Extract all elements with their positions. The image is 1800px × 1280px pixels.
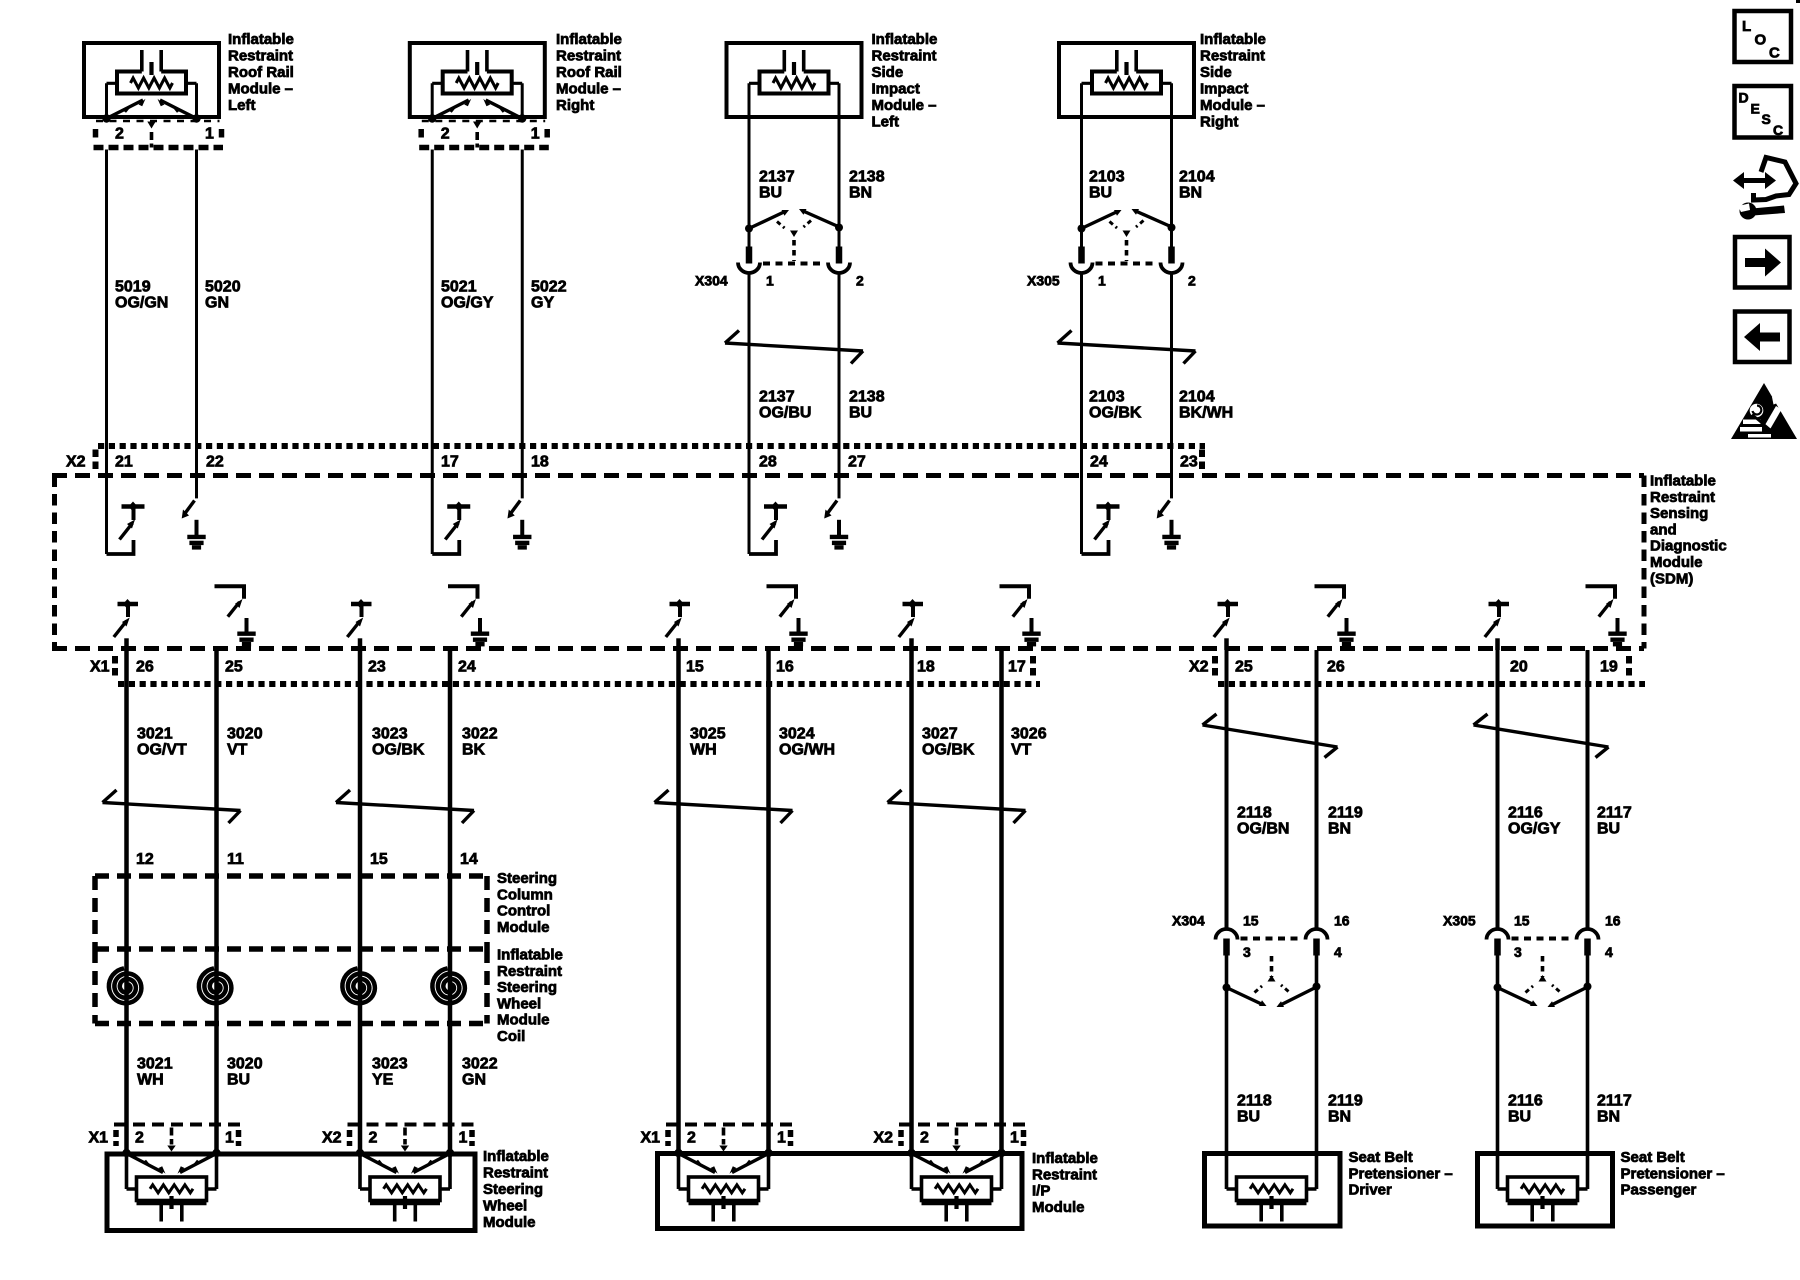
wire label 2117 BN xyxy=(1597,1093,1632,1126)
svg-text:24: 24 xyxy=(458,659,476,676)
shorting bars squib 2 xyxy=(907,1149,1005,1174)
svg-text:GY: GY xyxy=(531,295,554,312)
svg-text:BU: BU xyxy=(849,405,872,422)
clockspring coil (spiral) xyxy=(109,968,141,1003)
svg-text:(SDM): (SDM) xyxy=(1650,570,1693,587)
wire 2138 BU (SDM side) xyxy=(838,275,841,478)
svg-text:BN: BN xyxy=(1328,1109,1351,1126)
harness continuation arrow xyxy=(336,790,474,823)
svg-text:Restraint: Restraint xyxy=(1032,1166,1097,1183)
svg-text:O: O xyxy=(1755,32,1767,49)
svg-text:Pretensioner –: Pretensioner – xyxy=(1349,1165,1453,1182)
wire label 3024 OG/WH xyxy=(779,726,835,759)
svg-text:15: 15 xyxy=(1243,913,1259,929)
icon: double arrow with wrench xyxy=(1733,158,1796,220)
wire label 2119 BN xyxy=(1328,1093,1363,1126)
wire label 3022 BK xyxy=(462,726,498,759)
harness continuation arrow xyxy=(1203,714,1338,758)
svg-text:26: 26 xyxy=(136,659,154,676)
wire 5022 GY xyxy=(521,150,524,478)
shorting bars squib 1 xyxy=(674,1149,772,1174)
module box: Inflatable Restraint I/P Module xyxy=(658,1154,1023,1229)
wire 2117 BU (SDM side) xyxy=(1586,650,1590,929)
connector strip X2 of SDM (pins 25 26 20 19) xyxy=(1189,656,1645,684)
svg-text:3025: 3025 xyxy=(690,726,726,743)
wire label 3026 VT xyxy=(1011,726,1047,759)
squib of Pretensioner Passenger xyxy=(1498,1153,1588,1222)
svg-text:Restraint: Restraint xyxy=(228,48,293,65)
SDM deployment-loop driver, pin 21 xyxy=(107,477,145,554)
wire label 2104 BK/WH xyxy=(1179,389,1233,422)
wire label 3020 BU xyxy=(227,1056,263,1089)
wire 3024 OG/WH xyxy=(766,650,771,1153)
svg-text:3026: 3026 xyxy=(1011,726,1047,743)
module box: Inflatable Restraint Side Impact Module - Left xyxy=(727,43,862,117)
svg-text:3022: 3022 xyxy=(462,726,498,743)
svg-text:5022: 5022 xyxy=(531,279,567,296)
wire label 2117 BU xyxy=(1597,805,1632,838)
svg-text:1: 1 xyxy=(777,1130,786,1147)
connector strip X2 of SDM (pins 21 22 17 18 28 27 24 23) xyxy=(66,446,1205,471)
svg-text:Seat Belt: Seat Belt xyxy=(1349,1149,1413,1166)
svg-text:3020: 3020 xyxy=(227,726,263,743)
wire label 2138 BN xyxy=(849,169,885,202)
svg-text:BU: BU xyxy=(1237,1109,1260,1126)
wire label 2118 OG/BN xyxy=(1237,805,1289,838)
inline connector X304 (lower) pins 15,16 / 3,4 xyxy=(1172,913,1350,1008)
svg-text:Pretensioner –: Pretensioner – xyxy=(1621,1165,1725,1182)
svg-text:Driver: Driver xyxy=(1349,1182,1393,1199)
harness continuation arrow xyxy=(1474,714,1609,758)
svg-text:4: 4 xyxy=(1334,944,1342,960)
SDM deployment-loop driver, pin X2-25 xyxy=(1214,599,1238,650)
corner artifact mark xyxy=(1796,0,1800,3)
SDM switch to ground, pin X1-24 xyxy=(448,586,489,646)
svg-text:X2: X2 xyxy=(66,454,86,471)
SDM switch to ground, pin 22 xyxy=(182,477,206,550)
connector X2 (pins 2,1) of I/P Module xyxy=(874,1125,1026,1152)
module box: Inflatable Restraint Roof Rail Module - Left xyxy=(84,43,219,117)
svg-text:16: 16 xyxy=(1334,913,1350,929)
svg-text:X304: X304 xyxy=(1172,913,1205,929)
svg-text:OG/BK: OG/BK xyxy=(1089,405,1142,422)
svg-text:2: 2 xyxy=(115,126,124,143)
svg-text:Impact: Impact xyxy=(1200,81,1248,98)
svg-text:1: 1 xyxy=(1010,1130,1019,1147)
svg-text:2103: 2103 xyxy=(1089,169,1125,186)
harness continuation arrow (2137/2138) xyxy=(725,331,863,364)
svg-text:GN: GN xyxy=(205,295,229,312)
svg-text:OG/GY: OG/GY xyxy=(441,295,494,312)
svg-text:Module: Module xyxy=(1032,1199,1085,1216)
svg-text:Restraint: Restraint xyxy=(872,48,937,65)
svg-text:Module –: Module – xyxy=(556,81,621,98)
svg-text:3020: 3020 xyxy=(227,1056,263,1073)
wire 2117 BN (pretensioner side) xyxy=(1586,952,1590,1153)
svg-text:27: 27 xyxy=(848,454,866,471)
shorting bars squib 1 xyxy=(122,1149,220,1174)
svg-text:2116: 2116 xyxy=(1508,805,1543,822)
wire label 3027 OG/BK xyxy=(922,726,975,759)
svg-text:3021: 3021 xyxy=(137,1056,173,1073)
label text: Inflatable Restraint Roof Rail Module - Left xyxy=(228,31,294,114)
svg-text:Restraint: Restraint xyxy=(497,963,562,980)
svg-text:OG/WH: OG/WH xyxy=(779,742,835,759)
svg-text:1: 1 xyxy=(531,126,540,143)
svg-text:2: 2 xyxy=(687,1130,696,1147)
label text: Inflatable Restraint Side Impact Module - Right xyxy=(1200,31,1266,131)
icon: DESC box xyxy=(1735,86,1792,138)
icon: LOC box xyxy=(1735,11,1792,62)
SDM label text xyxy=(1650,473,1727,588)
svg-text:and: and xyxy=(1650,521,1677,538)
harness continuation arrow xyxy=(888,790,1026,823)
svg-text:2104: 2104 xyxy=(1179,389,1215,406)
wire label 2103 OG/BK xyxy=(1089,389,1142,422)
SDM deployment-loop driver, pin 17 xyxy=(432,477,470,554)
svg-text:BK: BK xyxy=(462,742,486,759)
svg-text:Inflatable: Inflatable xyxy=(483,1148,549,1165)
wire 3022 BK / GN xyxy=(448,650,453,1153)
svg-text:26: 26 xyxy=(1327,659,1345,676)
svg-text:3024: 3024 xyxy=(779,726,815,743)
svg-text:OG/GY: OG/GY xyxy=(1508,821,1561,838)
svg-text:20: 20 xyxy=(1510,659,1528,676)
svg-text:BU: BU xyxy=(1508,1109,1531,1126)
svg-text:BN: BN xyxy=(1179,185,1202,202)
wire label 2138 BU xyxy=(849,389,885,422)
wire label 3022 GN xyxy=(462,1056,498,1089)
SDM deployment-loop driver, pin 28 xyxy=(749,477,787,554)
svg-text:18: 18 xyxy=(531,454,549,471)
svg-text:22: 22 xyxy=(206,454,224,471)
svg-text:Roof Rail: Roof Rail xyxy=(228,64,294,81)
wire 5020 GN xyxy=(195,150,198,478)
svg-text:X304: X304 xyxy=(695,273,728,289)
label text: Inflatable Restraint Side Impact Module - Left xyxy=(872,31,938,131)
svg-text:Control: Control xyxy=(497,903,550,920)
svg-text:X1: X1 xyxy=(641,1130,661,1147)
module box: Inflatable Restraint Steering Wheel Module xyxy=(107,1154,475,1231)
svg-text:OG/VT: OG/VT xyxy=(137,742,187,759)
svg-text:1: 1 xyxy=(205,126,214,143)
svg-text:Sensing: Sensing xyxy=(1650,505,1708,522)
SDM switch to ground, pin X2-19 xyxy=(1586,586,1627,646)
svg-text:OG/BK: OG/BK xyxy=(922,742,975,759)
svg-text:2: 2 xyxy=(135,1130,144,1147)
icon: SIR caution triangle xyxy=(1731,383,1797,439)
clockspring coil (spiral) xyxy=(432,968,465,1003)
wire 5019 OG/GN xyxy=(105,150,108,478)
svg-text:2: 2 xyxy=(369,1130,378,1147)
svg-text:Side: Side xyxy=(872,64,904,81)
svg-text:E: E xyxy=(1751,101,1760,117)
svg-text:Diagnostic: Diagnostic xyxy=(1650,538,1727,555)
svg-text:2104: 2104 xyxy=(1179,169,1215,186)
squib of Pretensioner Driver xyxy=(1227,1153,1317,1222)
svg-text:2138: 2138 xyxy=(849,169,885,186)
svg-text:Steering: Steering xyxy=(497,870,557,887)
svg-text:Inflatable: Inflatable xyxy=(228,31,294,48)
svg-text:3021: 3021 xyxy=(137,726,173,743)
svg-text:OG/BN: OG/BN xyxy=(1237,821,1289,838)
svg-text:5019: 5019 xyxy=(115,279,151,296)
svg-text:WH: WH xyxy=(137,1072,164,1089)
svg-text:WH: WH xyxy=(690,742,717,759)
svg-text:Steering: Steering xyxy=(497,979,557,996)
svg-text:Inflatable: Inflatable xyxy=(1200,31,1266,48)
Steering Wheel Module label xyxy=(483,1148,549,1231)
svg-text:5020: 5020 xyxy=(205,279,241,296)
wire label 2104 BN xyxy=(1179,169,1215,202)
svg-text:Inflatable: Inflatable xyxy=(497,947,563,964)
svg-text:2: 2 xyxy=(441,126,450,143)
svg-text:25: 25 xyxy=(1235,659,1253,676)
wire 3026 VT xyxy=(999,650,1004,1153)
wire label 5021 OG/GY xyxy=(441,279,494,312)
Pretensioner Driver label xyxy=(1349,1149,1453,1199)
svg-text:2119: 2119 xyxy=(1328,1093,1363,1110)
svg-text:OG/BK: OG/BK xyxy=(372,742,425,759)
wire 2103 BU (module side) xyxy=(1080,119,1083,226)
SDM switch to ground, pin X1-25 xyxy=(215,586,256,646)
wire label 2119 BN xyxy=(1328,805,1363,838)
connector (pins 2,1) of Roof Rail Module - Left xyxy=(94,121,224,148)
SDM switch to ground, pin 18 xyxy=(507,477,531,550)
wire 2137 BU (module side) xyxy=(748,119,751,226)
Steering Wheel Module Coil label xyxy=(497,947,563,1046)
connector X2 (pins 2,1) of Steering Wheel Module xyxy=(322,1125,474,1152)
svg-text:2138: 2138 xyxy=(849,389,885,406)
svg-text:Module: Module xyxy=(1650,554,1703,571)
svg-text:3027: 3027 xyxy=(922,726,958,743)
svg-text:D: D xyxy=(1739,90,1749,106)
svg-text:Module: Module xyxy=(497,1012,550,1029)
svg-text:I/P: I/P xyxy=(1032,1183,1050,1200)
svg-text:X2: X2 xyxy=(322,1130,342,1147)
svg-text:16: 16 xyxy=(776,659,794,676)
svg-text:23: 23 xyxy=(1180,454,1198,471)
svg-text:15: 15 xyxy=(686,659,704,676)
wire 2118 OG/BN (SDM side) xyxy=(1225,650,1229,929)
wire 2138 BN (module side) xyxy=(838,119,841,226)
wire 2116 BU (pretensioner side) xyxy=(1496,952,1500,1153)
svg-text:Module –: Module – xyxy=(228,81,293,98)
squib 1 of I/P Module xyxy=(679,1153,769,1222)
SDM deployment-loop driver, pin X2-20 xyxy=(1485,599,1509,650)
svg-text:Module –: Module – xyxy=(872,97,937,114)
svg-text:3022: 3022 xyxy=(462,1056,498,1073)
connector X1 (pins 2,1) of I/P Module xyxy=(641,1125,793,1152)
svg-text:Coil: Coil xyxy=(497,1028,525,1045)
svg-text:X2: X2 xyxy=(1189,659,1209,676)
wire label 3023 OG/BK xyxy=(372,726,425,759)
wire label 5020 GN xyxy=(205,279,241,312)
svg-text:28: 28 xyxy=(759,454,777,471)
svg-text:BN: BN xyxy=(1597,1109,1620,1126)
svg-text:GN: GN xyxy=(462,1072,486,1089)
SDM switch to ground, pin X1-16 xyxy=(767,586,808,646)
svg-text:Left: Left xyxy=(228,97,256,114)
svg-text:BK/WH: BK/WH xyxy=(1179,405,1233,422)
svg-text:1: 1 xyxy=(225,1130,234,1147)
wire label 5019 OG/GN xyxy=(115,279,168,312)
wire 3020 VT / BU xyxy=(214,650,219,1153)
svg-text:X305: X305 xyxy=(1027,273,1060,289)
svg-text:25: 25 xyxy=(225,659,243,676)
SDM deployment-loop driver, pin 24 xyxy=(1082,477,1120,554)
svg-text:4: 4 xyxy=(1605,944,1613,960)
wire 3023 OG/BK / YE xyxy=(358,650,363,1153)
Steering Column Control Module label xyxy=(497,870,557,936)
svg-text:Steering: Steering xyxy=(483,1181,543,1198)
wire label 2118 BU xyxy=(1237,1093,1272,1126)
module box: Seat Belt Pretensioner - Passenger xyxy=(1478,1154,1613,1227)
svg-text:C: C xyxy=(1769,45,1780,62)
svg-text:2116: 2116 xyxy=(1508,1093,1543,1110)
wire label 2137 OG/BU xyxy=(759,389,811,422)
SCCM pin numbers 12 11 15 14 xyxy=(136,851,478,868)
svg-text:X1: X1 xyxy=(90,659,110,676)
svg-text:1: 1 xyxy=(1098,273,1106,289)
connector strip X1 of SDM (pins 26 25 23 24 15 16 18 17) xyxy=(90,656,1040,684)
svg-text:Wheel: Wheel xyxy=(497,995,541,1012)
svg-text:2103: 2103 xyxy=(1089,389,1125,406)
inline connector X305 (upper) xyxy=(1027,209,1196,289)
squib 2 of I/P Module xyxy=(912,1153,1002,1222)
svg-text:2: 2 xyxy=(1188,273,1196,289)
wire 2119 BN (pretensioner side) xyxy=(1315,952,1319,1153)
Pretensioner Passenger label xyxy=(1621,1149,1725,1199)
icon: arrow left box xyxy=(1735,312,1790,363)
wire 3025 WH xyxy=(676,650,681,1153)
SDM deployment-loop driver, pin X1-18 xyxy=(899,599,923,650)
svg-text:3: 3 xyxy=(1514,944,1522,960)
Steering Column Control Module dashed box xyxy=(95,876,487,949)
SDM switch to ground, pin 23 xyxy=(1157,477,1181,550)
SDM switch to ground, pin X1-17 xyxy=(1000,586,1041,646)
svg-text:5021: 5021 xyxy=(441,279,477,296)
clockspring coil (spiral) xyxy=(342,968,375,1003)
svg-text:21: 21 xyxy=(115,454,133,471)
svg-text:VT: VT xyxy=(1011,742,1032,759)
svg-text:24: 24 xyxy=(1090,454,1108,471)
svg-text:L: L xyxy=(1742,18,1751,35)
svg-text:15: 15 xyxy=(1514,913,1530,929)
svg-text:2119: 2119 xyxy=(1328,805,1363,822)
I/P Module label xyxy=(1032,1150,1098,1216)
svg-text:2118: 2118 xyxy=(1237,805,1272,822)
module box: Inflatable Restraint Roof Rail Module - Right xyxy=(410,43,545,117)
svg-text:15: 15 xyxy=(370,851,388,868)
Inflatable Restraint Sensing and Diagnostic Module (SDM) dashed box xyxy=(52,476,1644,649)
svg-text:C: C xyxy=(1773,122,1783,138)
wire label 2116 BU xyxy=(1508,1093,1543,1126)
svg-text:Seat Belt: Seat Belt xyxy=(1621,1149,1685,1166)
svg-text:X305: X305 xyxy=(1443,913,1476,929)
squib 1 of Steering Wheel Module xyxy=(127,1153,217,1222)
svg-text:23: 23 xyxy=(368,659,386,676)
wire 2103 OG/BK (SDM side) xyxy=(1080,275,1083,478)
svg-text:BU: BU xyxy=(759,185,782,202)
connector (pins 2,1) of Roof Rail Module - Right xyxy=(419,121,549,148)
svg-text:S: S xyxy=(1762,111,1771,127)
svg-text:BN: BN xyxy=(1328,821,1351,838)
svg-text:Inflatable: Inflatable xyxy=(556,31,622,48)
svg-text:2137: 2137 xyxy=(759,389,795,406)
wire 2118 BU (pretensioner side) xyxy=(1225,952,1229,1153)
module box: Seat Belt Pretensioner - Driver xyxy=(1205,1154,1341,1227)
squib (inflator resistor) of Side Impact Module - Left xyxy=(749,50,839,119)
module box: Inflatable Restraint Side Impact Module - Right xyxy=(1059,43,1194,117)
svg-text:Module –: Module – xyxy=(1200,97,1265,114)
svg-text:VT: VT xyxy=(227,742,248,759)
wire label 2103 BU xyxy=(1089,169,1125,202)
svg-text:2: 2 xyxy=(920,1130,929,1147)
svg-text:Inflatable: Inflatable xyxy=(872,31,938,48)
squib (inflator resistor) of Side Impact Module - Right xyxy=(1082,50,1172,119)
svg-text:OG/GN: OG/GN xyxy=(115,295,168,312)
wire 3021 OG/VT / WH xyxy=(124,650,129,1153)
svg-text:Side: Side xyxy=(1200,64,1232,81)
inline connector X304 (upper) xyxy=(695,209,864,289)
icon: arrow right box xyxy=(1735,237,1790,288)
svg-text:16: 16 xyxy=(1605,913,1621,929)
svg-text:Impact: Impact xyxy=(872,81,920,98)
label text: Inflatable Restraint Roof Rail Module - Right xyxy=(556,31,622,114)
svg-text:Module: Module xyxy=(497,919,550,936)
svg-text:X1: X1 xyxy=(89,1130,109,1147)
svg-text:Roof Rail: Roof Rail xyxy=(556,64,622,81)
SDM switch to ground, pin 27 xyxy=(824,477,848,550)
shorting bars and terminal dots of Roof Rail Module - Right xyxy=(428,99,526,123)
svg-text:1: 1 xyxy=(459,1130,468,1147)
wire label 3020 VT xyxy=(227,726,263,759)
wire label 3021 WH xyxy=(137,1056,173,1089)
SDM deployment-loop driver, pin X1-15 xyxy=(666,599,690,650)
svg-text:Inflatable: Inflatable xyxy=(1032,1150,1098,1167)
svg-text:Wheel: Wheel xyxy=(483,1198,527,1215)
svg-text:3023: 3023 xyxy=(372,726,408,743)
wire label 3025 WH xyxy=(690,726,726,759)
clockspring coil (spiral) xyxy=(199,968,232,1003)
svg-text:Restraint: Restraint xyxy=(483,1165,548,1182)
wire 5021 OG/GY xyxy=(431,150,434,478)
svg-text:BU: BU xyxy=(1089,185,1112,202)
shorting bars and terminal dots of Roof Rail Module - Left xyxy=(102,99,200,123)
svg-text:2: 2 xyxy=(856,273,864,289)
wire 2104 BN (module side) xyxy=(1170,119,1173,226)
wire 2119 BN (SDM side) xyxy=(1315,650,1319,929)
Inflatable Restraint Steering Wheel Module Coil dashed box xyxy=(95,949,487,1024)
svg-text:Restraint: Restraint xyxy=(556,48,621,65)
squib (inflator resistor) of Roof Rail Module - Left xyxy=(107,50,197,119)
connector X1 (pins 2,1) of Steering Wheel Module xyxy=(89,1125,241,1152)
svg-text:2137: 2137 xyxy=(759,169,795,186)
svg-text:3: 3 xyxy=(1243,944,1251,960)
squib (inflator resistor) of Roof Rail Module - Right xyxy=(432,50,522,119)
svg-text:18: 18 xyxy=(917,659,935,676)
svg-text:2117: 2117 xyxy=(1597,805,1632,822)
svg-text:2117: 2117 xyxy=(1597,1093,1632,1110)
wire label 2137 BU xyxy=(759,169,795,202)
svg-text:Right: Right xyxy=(556,97,594,114)
svg-text:Module: Module xyxy=(483,1214,536,1231)
svg-text:14: 14 xyxy=(460,851,478,868)
svg-text:X2: X2 xyxy=(874,1130,894,1147)
svg-text:Restraint: Restraint xyxy=(1650,489,1715,506)
SDM deployment-loop driver, pin X1-26 xyxy=(114,599,138,650)
